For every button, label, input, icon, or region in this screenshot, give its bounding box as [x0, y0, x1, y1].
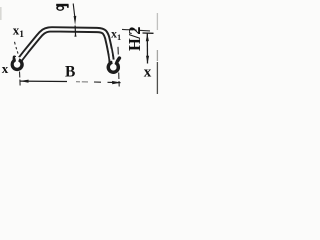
B dimension line: [20, 80, 121, 85]
right loop centerline dash-dot: [118, 47, 119, 87]
right edge scan rule: [156, 13, 158, 94]
svg-text:B: B: [65, 64, 75, 81]
scan smudge left edge: [0, 7, 2, 20]
right curl loop: [108, 58, 119, 72]
x1 axis dash-dot right extension: [122, 29, 150, 31]
svg-text:x: x: [2, 61, 9, 76]
left curl loop: [12, 57, 22, 69]
web white gap into loop junction: [21, 51, 27, 59]
svg-text:x: x: [144, 64, 152, 80]
H/2 dimension line with witness: [143, 33, 154, 64]
hat profile sheet (flange + webs), double line via white overlay: [20, 29, 112, 62]
sigma thickness label: [56, 4, 68, 11]
left loop centerline dash-dot: [15, 42, 21, 86]
svg-text:H/2: H/2: [125, 27, 144, 51]
thickness dimension arrow: [73, 4, 76, 37]
paper background: [0, 0, 159, 101]
